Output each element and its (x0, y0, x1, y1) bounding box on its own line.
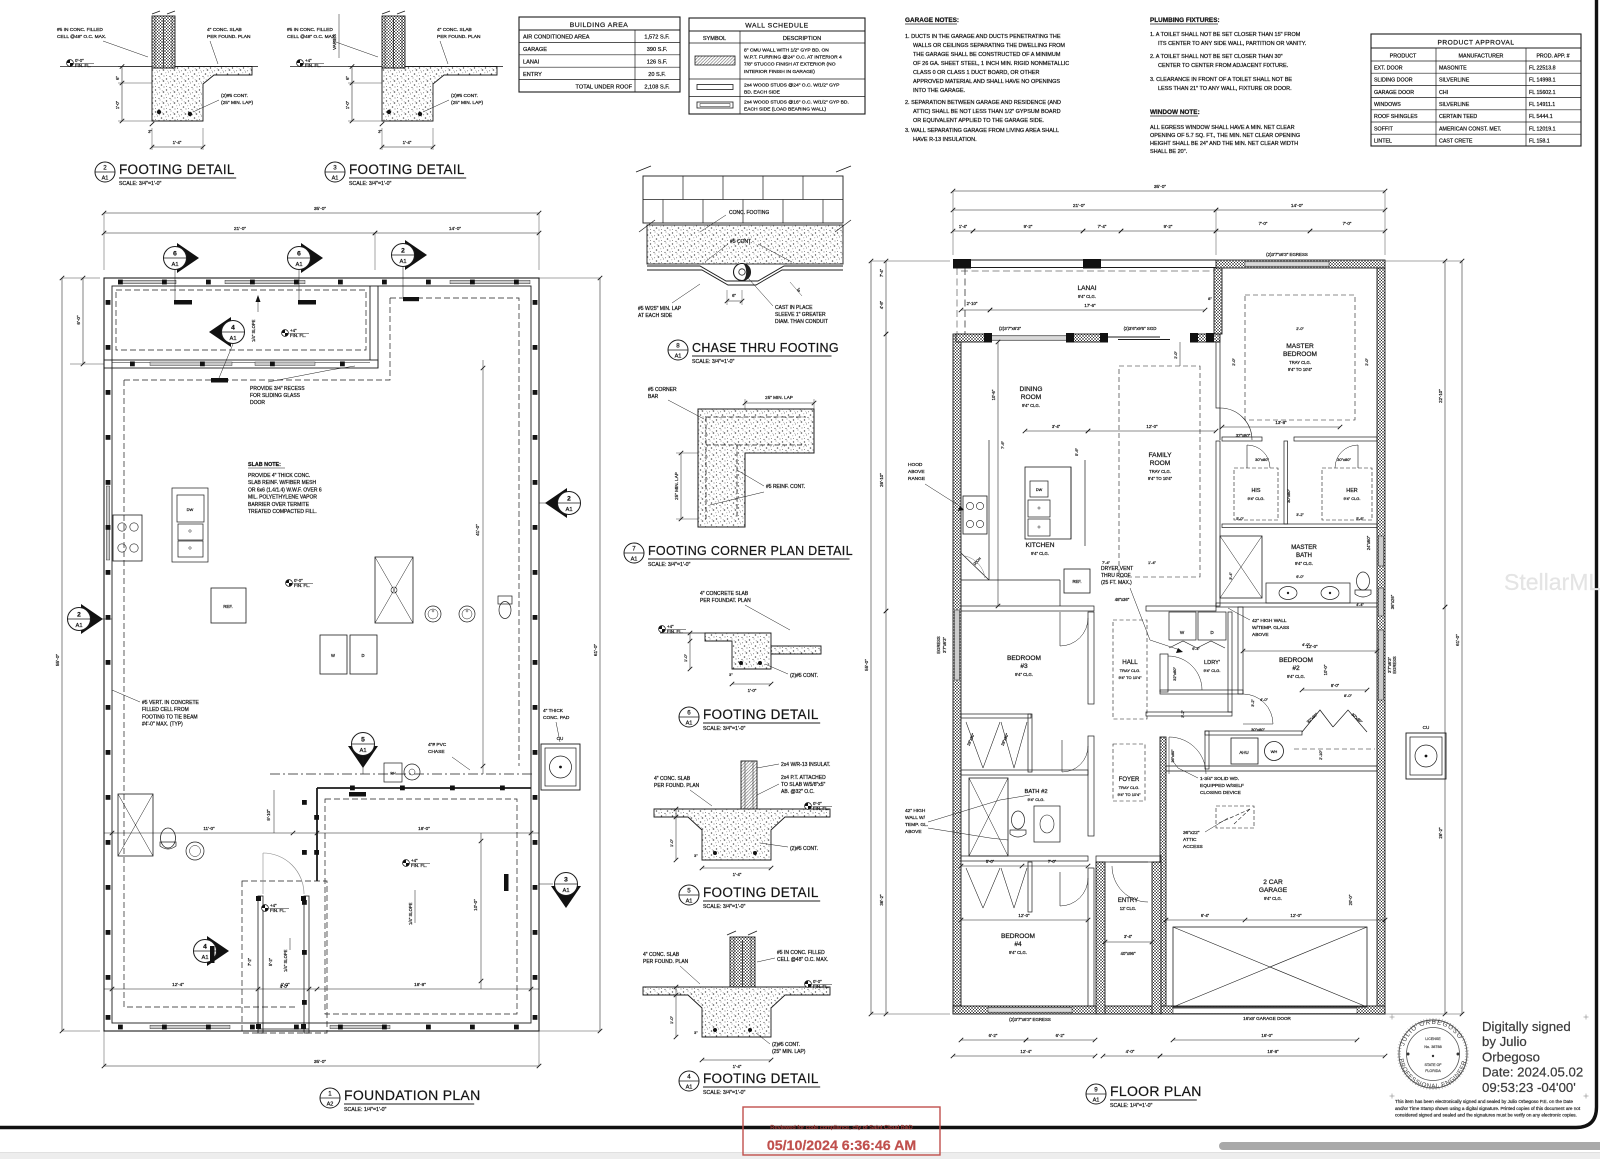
svg-text:SCALE: 3/4"=1'-0": SCALE: 3/4"=1'-0" (703, 726, 745, 732)
svg-text:FILLED CELL FROM: FILLED CELL FROM (142, 707, 189, 713)
product approval table (1371, 34, 1581, 146)
svg-text:8: 8 (676, 343, 680, 350)
svg-text:ROOF SHINGLES: ROOF SHINGLES (1374, 114, 1418, 120)
svg-text:LDRY': LDRY' (1204, 660, 1220, 666)
svg-text:CONC. FOOTING: CONC. FOOTING (729, 210, 769, 216)
svg-text:ITS CENTER TO ANY SIDE WALL, P: ITS CENTER TO ANY SIDE WALL, PARTITION O… (1158, 41, 1307, 47)
footing concrete mass 2 (152, 67, 252, 122)
dim 25 min lap top (744, 399, 746, 409)
svg-text:LANAI: LANAI (523, 59, 540, 65)
svg-text:7'-0": 7'-0" (1343, 221, 1352, 226)
svg-text:1. DUCTS IN THE GARAGE AND DUC: 1. DUCTS IN THE GARAGE AND DUCTS PENETRA… (905, 34, 1061, 40)
svg-text:FL 14911.1: FL 14911.1 (1529, 102, 1555, 108)
svg-text:D: D (361, 653, 364, 658)
dims 3 (351, 67, 353, 122)
svg-text:4'-0": 4'-0" (1126, 1049, 1135, 1054)
foundation marker 4 lanai (209, 317, 231, 347)
foundation entry stoop walls (258, 896, 263, 1033)
svg-text:BEDROOM: BEDROOM (1279, 657, 1313, 664)
svg-text:9'4" TO 10'4": 9'4" TO 10'4" (1117, 792, 1141, 797)
svg-text:A1: A1 (332, 176, 339, 182)
svg-text:SCALE: 3/4"=1'-0": SCALE: 3/4"=1'-0" (349, 181, 391, 187)
svg-text:(2)#5 CONT.: (2)#5 CONT. (221, 93, 248, 99)
svg-text:HOOD: HOOD (908, 462, 923, 468)
svg-text:CENTER TO CENTER FROM ADJACENT: CENTER TO CENTER FROM ADJACENT FIXTURE. (1158, 63, 1289, 69)
svg-text:No. 38788: No. 38788 (1424, 1045, 1442, 1049)
bedroom2 closet shelf dashed (1294, 748, 1375, 750)
svg-text:6'-0": 6'-0" (1296, 575, 1304, 579)
wall symbol 2x4 (697, 85, 733, 90)
svg-text:FIN. FL.: FIN. FL. (290, 333, 306, 338)
svg-text:10'-6": 10'-6" (991, 389, 996, 400)
floor plan top dim row3 (953, 230, 973, 232)
svg-text:FIN. FL.: FIN. FL. (305, 63, 321, 68)
floor plan right wall (1377, 268, 1385, 1014)
svg-text:SLIDING DOOR: SLIDING DOOR (1374, 78, 1413, 84)
entry walls (1096, 862, 1105, 1014)
svg-text:(2)3'7"x6'3": (2)3'7"x6'3" (999, 326, 1022, 331)
svg-text:ACCESS: ACCESS (1183, 844, 1203, 850)
foundation left bath shower (118, 794, 153, 856)
svg-text:EGRESS: EGRESS (1392, 656, 1397, 674)
fin fl marker 3 (297, 60, 304, 67)
svg-text:#5 CORNER: #5 CORNER (648, 387, 677, 393)
svg-text:DRYER VENT: DRYER VENT (1101, 566, 1133, 572)
floor plan top wall master bedroom (1216, 260, 1385, 268)
svg-text:FIN. FL.: FIN. FL. (667, 629, 683, 634)
svg-text:MASTER: MASTER (1291, 544, 1317, 551)
svg-text:A1: A1 (75, 623, 82, 629)
svg-text:FOOTING DETAIL: FOOTING DETAIL (119, 162, 235, 177)
foundation fin fl markers (286, 580, 293, 587)
svg-text:BUILDING AREA: BUILDING AREA (570, 22, 629, 29)
svg-text:1. A TOILET SHALL NOT BE SET C: 1. A TOILET SHALL NOT BE SET CLOSER THAN… (1150, 32, 1301, 38)
svg-text:30"x80": 30"x80" (1337, 457, 1351, 462)
scrollbar track (0, 1153, 1600, 1159)
svg-text:PRODUCT APPROVAL: PRODUCT APPROVAL (1437, 40, 1514, 47)
svg-text:RH: RH (390, 772, 396, 776)
svg-text:ENTRY: ENTRY (1118, 898, 1138, 904)
svg-text:#5 CONT.: #5 CONT. (730, 239, 752, 245)
svg-text:4'-4": 4'-4" (1356, 603, 1364, 607)
svg-text:6": 6" (732, 293, 736, 298)
foundation washer dryer (320, 635, 347, 674)
chase boxes (384, 763, 402, 782)
foundation shower pan (375, 557, 413, 623)
master suite bottom wall (1216, 603, 1377, 607)
foundation left dim 6 (82, 278, 84, 364)
fin fl marker 6 (659, 626, 666, 633)
svg-text:LINTEL: LINTEL (1374, 139, 1392, 145)
svg-text:A1: A1 (171, 262, 178, 268)
corner rebar dashed (706, 416, 806, 418)
svg-text:BAR: BAR (648, 394, 659, 400)
svg-text:TREATED COMPACTED FILL.: TREATED COMPACTED FILL. (248, 509, 317, 515)
dims detail 5 (675, 809, 677, 860)
engineer seal (1399, 1020, 1467, 1088)
foundation window sills top wall (120, 280, 176, 284)
svg-text:8" CMU WALL WITH 1/2" GYP BD.: 8" CMU WALL WITH 1/2" GYP BD. ON (744, 48, 829, 54)
wd closet (1169, 612, 1196, 640)
attic access (1216, 806, 1254, 828)
svg-text:1'-4": 1'-4" (1148, 560, 1157, 565)
svg-text:1: 1 (328, 1091, 332, 1098)
svg-text:BEDROOM: BEDROOM (1283, 351, 1317, 358)
svg-text:Digitally signed: Digitally signed (1482, 1019, 1571, 1034)
stud wall detail 5 (741, 761, 757, 809)
svg-text:SHALL BE 20".: SHALL BE 20". (1150, 149, 1188, 155)
foundation vertical dim 10 (480, 833, 482, 989)
svg-text:7'-4": 7'-4" (879, 268, 884, 277)
kitchen left counter (988, 440, 990, 580)
floor plan title (1086, 1084, 1106, 1104)
svg-text:8'-0": 8'-0" (1331, 683, 1340, 688)
foundation marker leader lines (174, 270, 176, 300)
svg-text:KITCHEN: KITCHEN (1026, 542, 1055, 549)
svg-text:FLOOR PLAN: FLOOR PLAN (1110, 1083, 1202, 1099)
svg-text:40"x96": 40"x96" (1120, 951, 1136, 956)
svg-text:WINDOWS: WINDOWS (1374, 102, 1401, 108)
svg-text:2: 2 (103, 165, 107, 172)
svg-text:FL 158.1: FL 158.1 (1529, 139, 1550, 145)
bath2 bed4 wall (961, 856, 1088, 861)
svg-text:DW: DW (187, 507, 194, 512)
svg-text:2: 2 (401, 248, 405, 255)
foundation vertical dim 41 (482, 360, 484, 774)
svg-text:9'4" CLG.: 9'4" CLG. (1264, 896, 1282, 901)
svg-text:VARIES: VARIES (332, 34, 337, 50)
concrete detail 4 (643, 987, 830, 1037)
svg-text:2'-10": 2'-10" (1319, 750, 1323, 760)
ldry bottom wall (1146, 712, 1232, 716)
red review stamp box (743, 1107, 940, 1155)
svg-text:TRAY CLG.: TRAY CLG. (1120, 668, 1141, 673)
svg-text:SLAB REINF. W/FIBER MESH: SLAB REINF. W/FIBER MESH (248, 480, 316, 486)
svg-text:7'-0": 7'-0" (1259, 221, 1268, 226)
cu pad foundation (541, 744, 580, 790)
svg-text:3: 3 (333, 165, 337, 172)
floor plan bottom wall (953, 1006, 1385, 1014)
svg-text:1/4" SLOPE: 1/4" SLOPE (408, 902, 413, 925)
svg-text:8'-10": 8'-10" (266, 809, 271, 821)
svg-text:FOR SLIDING GLASS: FOR SLIDING GLASS (250, 393, 301, 399)
svg-text:A1: A1 (102, 176, 109, 182)
foundation title (320, 1088, 340, 1108)
bedroom2 door (1243, 694, 1273, 724)
svg-text:and/or Time Stamp shown using: and/or Time Stamp shown using a digital … (1395, 1106, 1581, 1111)
svg-text:2x4 WOOD STUDS @24" O.C. W/1/2: 2x4 WOOD STUDS @24" O.C. W/1/2" GYP (744, 83, 839, 89)
fin fl marker 5 (805, 803, 812, 810)
svg-text:9'4" CLG.: 9'4" CLG. (1031, 551, 1049, 556)
svg-text:2: 2 (567, 496, 571, 503)
svg-text:9'4" CLG.: 9'4" CLG. (1295, 561, 1313, 566)
svg-text:36"x26": 36"x26" (1390, 594, 1395, 609)
svg-text:9'4" TO 10'4": 9'4" TO 10'4" (1148, 476, 1173, 481)
svg-text:2'-10": 2'-10" (967, 301, 978, 306)
svg-text:#5 VERT. IN CONCRETE: #5 VERT. IN CONCRETE (142, 700, 200, 706)
kitchen bottom counter (961, 579, 1060, 581)
svg-text:20 S.F.: 20 S.F. (648, 72, 666, 78)
svg-text:CLOSING DEVICE: CLOSING DEVICE (1200, 790, 1241, 796)
cmu wall detail 4 (730, 937, 755, 987)
svg-text:INTO THE GARAGE.: INTO THE GARAGE. (913, 88, 966, 94)
water heater (1265, 742, 1284, 761)
svg-text:PLUMBING FIXTURES:: PLUMBING FIXTURES: (1150, 17, 1220, 24)
svg-text:CAST CRETE: CAST CRETE (1439, 139, 1473, 145)
svg-text:#2: #2 (1292, 665, 1300, 672)
svg-text:2: 2 (77, 612, 81, 619)
svg-text:Reviewed for code compliance,: Reviewed for code compliance, city of Sa… (770, 1125, 912, 1131)
master bedroom door arc (1219, 408, 1221, 440)
foundation entry door arc (263, 853, 304, 894)
foundation garage separation walls (317, 787, 531, 789)
svg-text:1'-0": 1'-0" (669, 1015, 674, 1024)
svg-text:1'-0": 1'-0" (683, 653, 688, 662)
bedroom row dims y916 (961, 919, 1088, 921)
svg-text:4'-0": 4'-0" (280, 984, 289, 989)
svg-text:INTERIOR FINISH IN GARAGE): INTERIOR FINISH IN GARAGE) (744, 69, 815, 75)
svg-text:FLORIDA: FLORIDA (1425, 1069, 1441, 1073)
svg-text:GARAGE NOTES:: GARAGE NOTES: (905, 17, 959, 24)
svg-text:14'-0": 14'-0" (1291, 203, 1304, 209)
svg-text:A1: A1 (631, 557, 638, 563)
svg-text:AHU: AHU (1239, 750, 1248, 755)
foundation ref (211, 588, 246, 623)
master closets walls (1216, 441, 1220, 606)
svg-text:This item has been electronica: This item has been electronically signed… (1395, 1099, 1573, 1104)
foundation marker 2 left (81, 604, 103, 634)
svg-text:6: 6 (297, 251, 301, 258)
svg-text:HEIGHT SHALL BE 24" AND THE MI: HEIGHT SHALL BE 24" AND THE MIN. NET CLE… (1150, 141, 1298, 147)
svg-text:5'-0": 5'-0" (986, 859, 995, 864)
svg-text:2 CAR: 2 CAR (1263, 879, 1283, 886)
dims 2 (121, 67, 123, 122)
svg-text:DIAM. THAN CONDUIT: DIAM. THAN CONDUIT (775, 319, 828, 325)
svg-text:(25" MIN. LAP): (25" MIN. LAP) (221, 100, 253, 106)
svg-text:#4'-0" MAX. (TYP): #4'-0" MAX. (TYP) (142, 722, 183, 728)
svg-text:W: W (1180, 630, 1185, 635)
svg-text:9'4" CLG.: 9'4" CLG. (1078, 294, 1096, 299)
svg-text:#5 IN CONC. FILLED: #5 IN CONC. FILLED (287, 27, 333, 33)
svg-text:SCALE: 3/4"=1'-0": SCALE: 3/4"=1'-0" (703, 1090, 745, 1096)
floor plan lanai bottom wall / dining wall (956, 334, 990, 342)
svg-text:2'-0": 2'-0" (1365, 358, 1369, 366)
svg-text:SCALE: 3/4"=1'-0": SCALE: 3/4"=1'-0" (119, 181, 161, 187)
floor plan lanai dims (990, 309, 1205, 311)
title footing detail 3 (325, 162, 345, 182)
svg-text:390 S.F.: 390 S.F. (647, 47, 668, 53)
svg-text:A1: A1 (229, 336, 236, 342)
foundation left dim 55 (61, 278, 63, 1031)
svg-text:PRODUCT: PRODUCT (1390, 54, 1417, 60)
svg-text:14'-0": 14'-0" (449, 226, 462, 232)
svg-text:A1: A1 (359, 748, 366, 754)
svg-text:4" CONCRETE SLAB: 4" CONCRETE SLAB (700, 591, 749, 597)
svg-text:ABOVE: ABOVE (905, 829, 922, 835)
svg-text:7'-2": 7'-2" (247, 957, 252, 966)
foyer (1113, 744, 1145, 801)
svg-text:10'-0": 10'-0" (1323, 664, 1328, 675)
svg-text:by Julio: by Julio (1482, 1034, 1527, 1049)
svg-text:CERTAIN TEED: CERTAIN TEED (1439, 114, 1477, 120)
svg-text:HER: HER (1346, 488, 1357, 494)
lanai posts (953, 259, 971, 269)
garage door to house (1169, 737, 1206, 774)
svg-text:OF 26 GA. SHEET STEEL, 1 INCH: OF 26 GA. SHEET STEEL, 1 INCH MIN. RIGID… (913, 61, 1069, 67)
svg-text:MASONITE: MASONITE (1439, 65, 1467, 71)
svg-text:10'-0": 10'-0" (473, 899, 478, 911)
foundation dashed footing lanai (116, 290, 366, 350)
svg-text:WINDOW NOTE:: WINDOW NOTE: (1150, 109, 1200, 116)
foundation dashed footing main (390, 298, 519, 766)
svg-text:3'-2": 3'-2" (1251, 699, 1255, 707)
svg-text:42" HIGH WALL: 42" HIGH WALL (1252, 618, 1287, 624)
bed4 closet (1028, 862, 1032, 912)
title footing detail 6 (679, 707, 699, 727)
svg-text:Orbegoso: Orbegoso (1482, 1049, 1540, 1064)
svg-text:BEDROOM: BEDROOM (1007, 655, 1041, 662)
svg-text:1'-4": 1'-4" (173, 140, 182, 145)
svg-text:1'-0": 1'-0" (345, 100, 350, 109)
svg-text:7'-4": 7'-4" (1102, 560, 1111, 565)
svg-text:FOOTING DETAIL: FOOTING DETAIL (703, 707, 819, 722)
foundation interior dim line 11 18 (104, 832, 539, 834)
wall schedule table (689, 18, 865, 114)
svg-text:A1: A1 (565, 507, 572, 513)
footing detail 2 section (152, 16, 175, 68)
svg-text:A1: A1 (399, 259, 406, 265)
her closet (1322, 468, 1372, 520)
svg-text:(25" MIN. LAP): (25" MIN. LAP) (772, 1049, 806, 1055)
floor plan top dim 21 14 (953, 209, 1216, 211)
rebar detail 6 (739, 661, 743, 665)
bath2 fixtures (969, 778, 1008, 856)
title footing detail 2 (95, 162, 115, 182)
rebar (2)#5 cont 3 (387, 110, 391, 114)
footing concrete mass 3 (382, 67, 497, 122)
svg-text:5'-2": 5'-2" (268, 957, 273, 966)
svg-text:RANGE: RANGE (908, 476, 925, 482)
svg-text:21'-0": 21'-0" (1073, 203, 1086, 209)
svg-text:#3: #3 (1020, 663, 1028, 670)
svg-text:W/TEMP. GLASS: W/TEMP. GLASS (1252, 625, 1289, 631)
svg-text:3. WALL SEPARATING GARAGE FROM: 3. WALL SEPARATING GARAGE FROM LIVING AR… (905, 128, 1059, 134)
svg-text:9'4" CLG.: 9'4" CLG. (1287, 674, 1305, 679)
svg-text:4: 4 (231, 325, 235, 332)
svg-text:SYMBOL: SYMBOL (703, 36, 726, 42)
bed3 dims row (961, 865, 1088, 867)
foundation right dim 61 (599, 278, 601, 1031)
svg-text:3. CLEARANCE IN FRONT OF A TOI: 3. CLEARANCE IN FRONT OF A TOILET SHALL … (1150, 77, 1292, 83)
svg-text:18'-8": 18'-8" (1267, 1049, 1279, 1054)
svg-text:55'-0": 55'-0" (55, 654, 61, 667)
svg-text:PROVIDE 4" THICK CONC.: PROVIDE 4" THICK CONC. (248, 473, 310, 479)
svg-text:8": 8" (1208, 296, 1212, 301)
svg-text:1'-4": 1'-4" (403, 140, 412, 145)
svg-text:26'-2": 26'-2" (1438, 827, 1443, 839)
svg-text:9'4" TO 10'4": 9'4" TO 10'4" (1118, 675, 1142, 680)
bedroom2 left wall (1238, 607, 1243, 694)
svg-text:18'-0": 18'-0" (418, 826, 430, 831)
kitchen ref (1064, 569, 1090, 593)
svg-text:#5 IN CONC. FILLED: #5 IN CONC. FILLED (57, 27, 103, 33)
svg-text:36"x80": 36"x80" (1171, 749, 1175, 763)
svg-text:BATH #2: BATH #2 (1024, 789, 1047, 795)
svg-text:DESCRIPTION: DESCRIPTION (783, 36, 821, 42)
svg-text:1/4" SLOPE: 1/4" SLOPE (283, 949, 288, 972)
svg-text:7/8" STUCCO FINISH AT EXTERIOR: 7/8" STUCCO FINISH AT EXTERIOR (NO (744, 62, 836, 68)
svg-text:13'-8": 13'-8" (1275, 420, 1287, 425)
svg-text:3'7"x6'3": 3'7"x6'3" (942, 636, 947, 652)
svg-text:30"x80": 30"x80" (1255, 457, 1269, 462)
svg-text:HALL: HALL (1122, 659, 1138, 666)
svg-text:6: 6 (173, 251, 177, 258)
foundation dashed footing garage (325, 799, 517, 1014)
svg-text:FOOTING DETAIL: FOOTING DETAIL (349, 162, 465, 177)
fin fl marker 4 (805, 981, 812, 988)
title footing detail 4 (679, 1071, 699, 1091)
main interior vertical wall (1088, 612, 1094, 704)
svg-text:48"x36": 48"x36" (1115, 597, 1130, 602)
svg-text:CHASE THRU FOOTING: CHASE THRU FOOTING (692, 341, 839, 355)
svg-text:42" HIGH: 42" HIGH (905, 808, 926, 814)
svg-text:A1: A1 (1093, 1098, 1100, 1104)
svg-text:GARAGE DOOR: GARAGE DOOR (1374, 90, 1414, 96)
svg-text:26'-10": 26'-10" (879, 473, 884, 487)
svg-text:SCALE: 3/4"=1'-0": SCALE: 3/4"=1'-0" (648, 562, 690, 568)
svg-text:AIR CONDITIONED AREA: AIR CONDITIONED AREA (523, 35, 590, 41)
svg-text:A1: A1 (562, 888, 569, 894)
svg-text:considered signed and sealed a: considered signed and sealed and the sig… (1395, 1113, 1577, 1118)
svg-text:FIN. FL.: FIN. FL. (294, 583, 310, 588)
svg-text:6": 6" (115, 76, 120, 80)
svg-text:05/10/2024 6:36:46 AM: 05/10/2024 6:36:46 AM (767, 1138, 916, 1154)
svg-text:9'4" CLG.: 9'4" CLG. (1203, 668, 1220, 673)
svg-text:1'-0": 1'-0" (748, 688, 757, 693)
svg-text:PROD. APP. #: PROD. APP. # (1536, 54, 1569, 60)
svg-text:6'-2": 6'-2" (1056, 1033, 1065, 1038)
svg-text:#5 W/25" MIN. LAP: #5 W/25" MIN. LAP (638, 306, 682, 312)
svg-text:2,108 S.F.: 2,108 S.F. (644, 85, 670, 91)
rebar (2)#5 cont 2 (157, 110, 161, 114)
svg-text:1/4" SLOPE: 1/4" SLOPE (251, 319, 256, 342)
svg-text:PER FOUND. PLAN: PER FOUND. PLAN (643, 959, 689, 965)
svg-text:SCALE: 3/4"=1'-0": SCALE: 3/4"=1'-0" (703, 904, 745, 910)
family room tray (1119, 366, 1200, 577)
title chase thru footing (668, 340, 688, 360)
svg-text:ENTRY: ENTRY (523, 72, 542, 78)
foundation bottom dim 35 (104, 1065, 539, 1067)
ldry right wall (1228, 612, 1232, 712)
master bath vanity (1266, 583, 1350, 603)
footing detail 3 section (382, 16, 405, 68)
cmu block courses (643, 176, 843, 223)
svg-text:22'-10": 22'-10" (1438, 389, 1443, 403)
foundation chase dash-dot line (270, 773, 535, 775)
lanai left dashed screen (964, 268, 966, 334)
svg-text:36'-2": 36'-2" (879, 894, 884, 906)
svg-text:6": 6" (345, 76, 350, 80)
svg-text:(2)#5 CONT.: (2)#5 CONT. (790, 673, 818, 679)
svg-text:SOFFIT: SOFFIT (1374, 126, 1394, 132)
svg-text:5: 5 (361, 737, 365, 744)
svg-text:36"x22": 36"x22" (1183, 830, 1200, 836)
svg-text:GARAGE: GARAGE (1259, 887, 1288, 894)
svg-text:APPROVED MATERIAL AND SHALL HA: APPROVED MATERIAL AND SHALL HAVE NO OPEN… (913, 79, 1060, 85)
svg-text:DINING: DINING (1019, 386, 1042, 393)
svg-text:24"x60": 24"x60" (1366, 535, 1371, 550)
svg-text:5'-6": 5'-6" (1074, 447, 1079, 456)
